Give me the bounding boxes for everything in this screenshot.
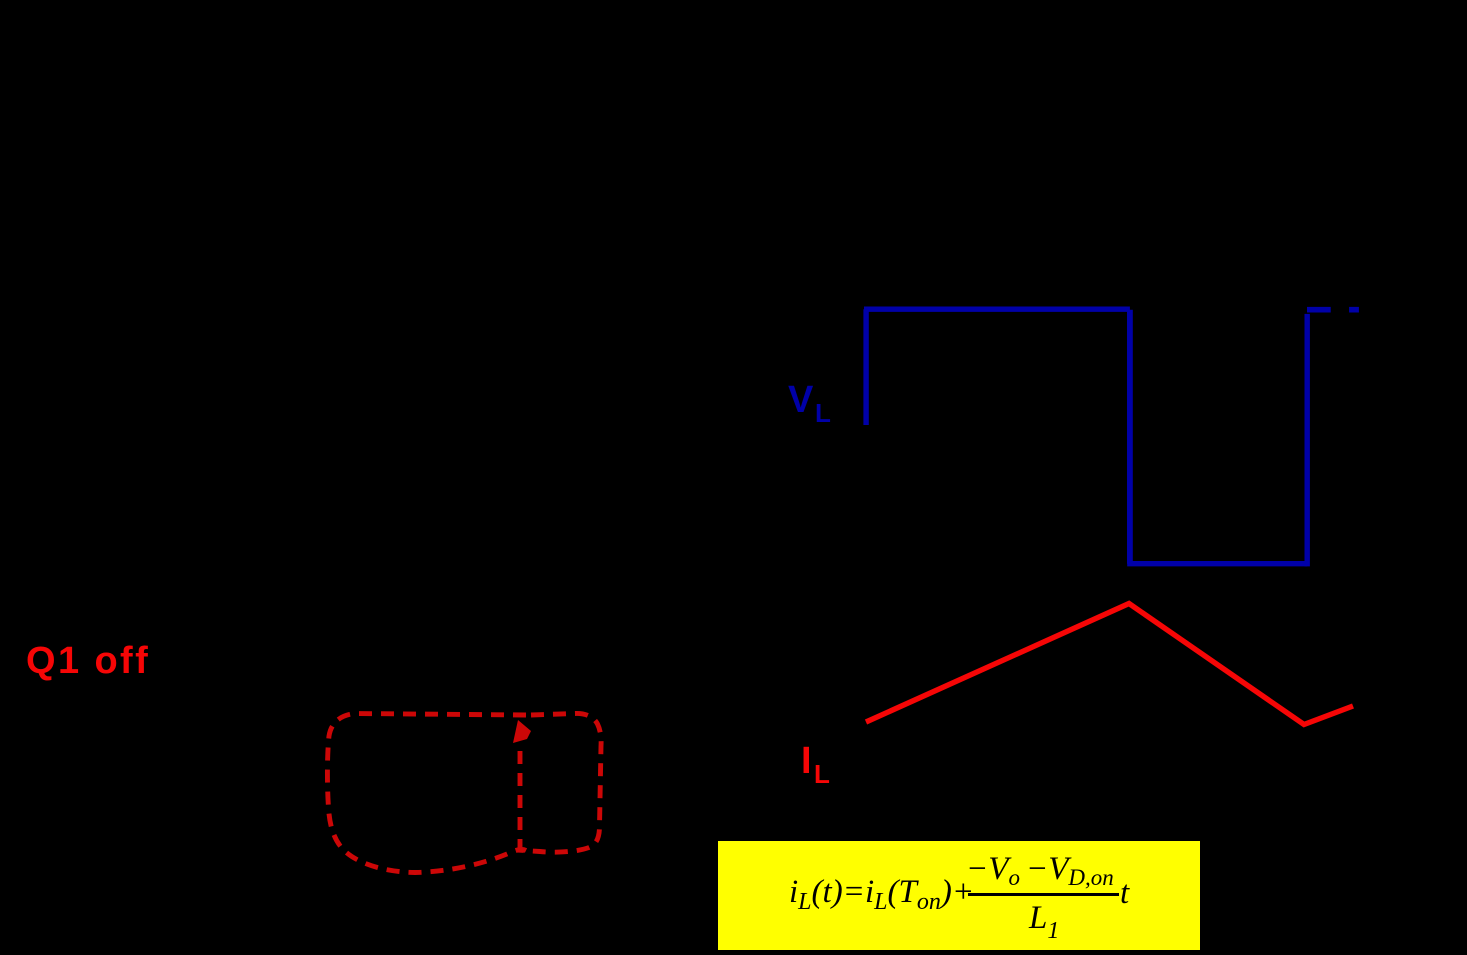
- node arrowhead of loop: [513, 720, 531, 743]
- wire V_L square wave mid riser: [1127, 310, 1133, 564]
- label Q1 off: [26, 642, 150, 680]
- label V_L: [788, 381, 813, 419]
- node equation i_L(t): [789, 876, 974, 914]
- node equation fraction bar: [968, 893, 1119, 896]
- label I_L: [801, 742, 812, 780]
- wire V_L square wave top level: [864, 307, 1130, 312]
- node equation box: [718, 841, 1200, 950]
- node equation denominator: [1029, 902, 1059, 943]
- node equation t: [1120, 877, 1129, 910]
- node loop inner vertical with arrow: [518, 745, 523, 852]
- wire V_L square wave left riser: [863, 309, 868, 425]
- wire V_L dashed continuation: [1307, 307, 1359, 313]
- node big dashed loop annotation: [327, 714, 526, 873]
- wire I_L triangle wave (red): [866, 604, 1353, 725]
- node equation numerator: [966, 853, 1114, 889]
- wire V_L square wave bottom level: [1127, 561, 1307, 566]
- wire V_L square wave right riser: [1304, 314, 1309, 567]
- node small dashed rect annotation: [517, 713, 601, 852]
